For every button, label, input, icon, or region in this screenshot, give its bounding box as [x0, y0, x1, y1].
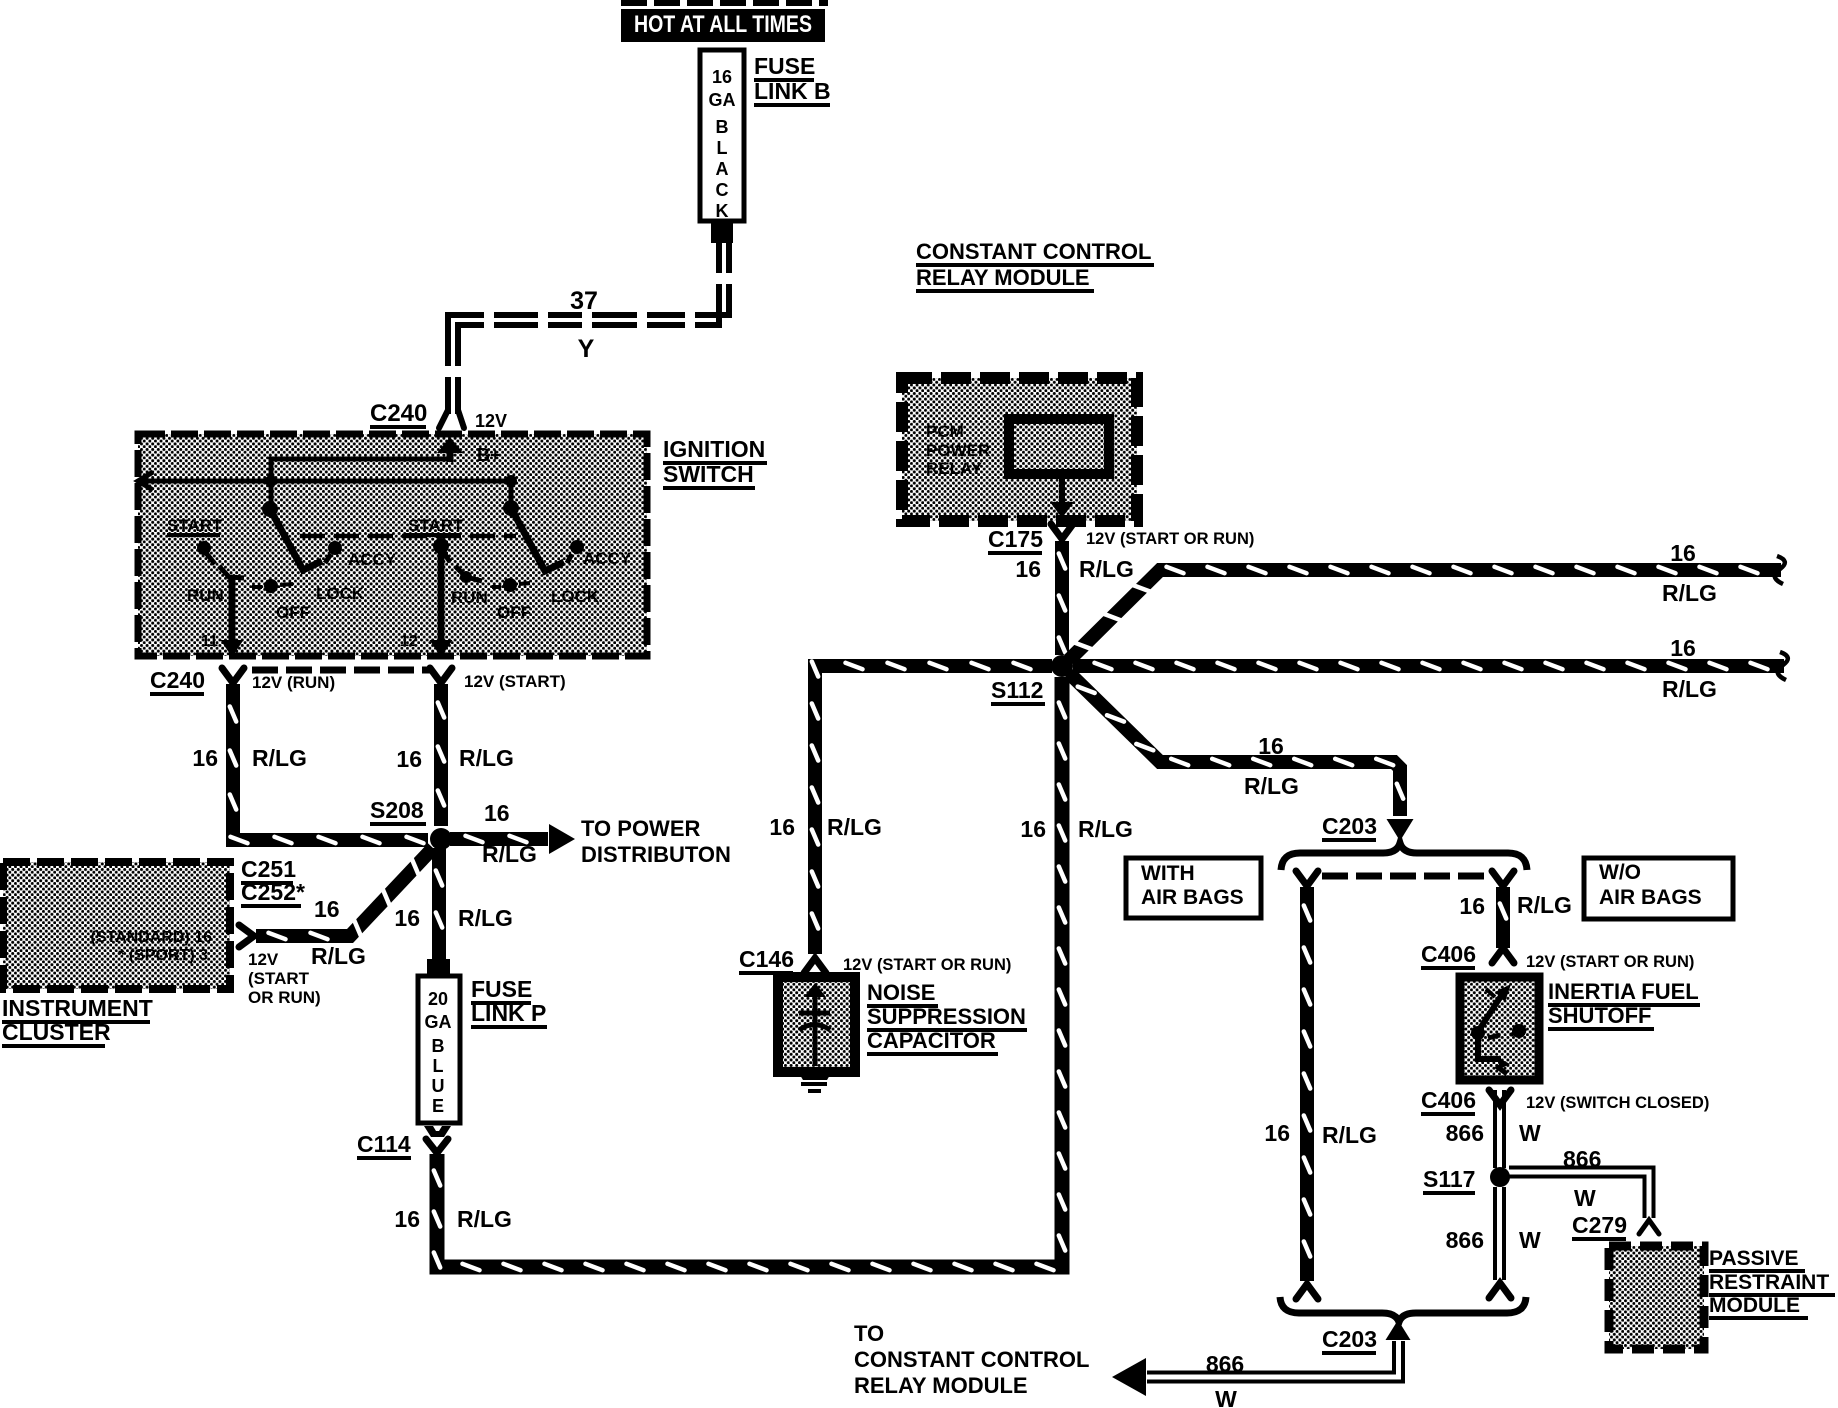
C175 wire labels 16 R/LG: [1015, 556, 1134, 582]
svg-text:START: START: [167, 516, 223, 535]
C203 bottom fork (right): [1489, 1283, 1511, 1298]
svg-text:FUSE: FUSE: [754, 53, 815, 79]
svg-text:LOCK: LOCK: [551, 587, 600, 606]
wire 37 Y (fuse link B to C240, double-line): [442, 243, 734, 414]
noise suppression capacitor connector C146 fork: [804, 958, 826, 973]
instrument cluster box: [3, 862, 230, 989]
wire 16 R/LG (w/o air bags) to C406: [1500, 887, 1506, 948]
OFF contact (switch 1): [252, 579, 310, 622]
pin 12 arrow to C240: [430, 538, 453, 657]
B+ entry arrow: [437, 437, 463, 462]
svg-text:MODULE: MODULE: [1709, 1294, 1800, 1317]
866 W labels (C279 branch): [1563, 1146, 1601, 1211]
capacitor branch labels 16 R/LG: [769, 814, 882, 840]
svg-text:C: C: [716, 180, 729, 200]
HOT AT ALL TIMES label box: [621, 9, 825, 42]
wire 866 W from S117 down to C203 (double line): [1495, 1187, 1504, 1280]
svg-text:LOCK: LOCK: [316, 584, 365, 603]
wire 866 W return to constant control relay module (double line, arrows): [1112, 1320, 1411, 1396]
svg-text:R/LG: R/LG: [1079, 556, 1134, 582]
fuse link P (20 GA BLUE): [418, 976, 460, 1123]
connector C406 bottom fork: [1489, 1090, 1511, 1105]
svg-text:B+: B+: [477, 445, 501, 465]
svg-text:OR RUN): OR RUN): [248, 988, 321, 1007]
svg-text:C203: C203: [1322, 813, 1377, 839]
constant control relay module heading: [916, 239, 1154, 293]
svg-text:R/LG: R/LG: [1244, 773, 1299, 799]
wire 16 R/LG (with air bags) down to C203 bottom: [1304, 887, 1310, 1281]
C203 bottom fork (left): [1296, 1284, 1318, 1299]
START contact (switch 1): [167, 516, 223, 564]
C203 connector forks and dashed line: [1296, 871, 1514, 886]
svg-text:WITH: WITH: [1141, 862, 1195, 885]
12V (START OR RUN) label: [248, 950, 321, 1007]
svg-text:16: 16: [769, 814, 795, 840]
C114 wire labels 16 R/LG: [394, 1206, 512, 1232]
connector C114 terminal bulb: [424, 1126, 451, 1137]
C203 brace (bottom): [1280, 1297, 1526, 1322]
inertia fuel shutoff label: [1548, 979, 1700, 1031]
ignition switch box: [138, 434, 647, 656]
svg-text:HOT AT ALL TIMES: HOT AT ALL TIMES: [634, 11, 812, 38]
866 W labels (lower): [1446, 1227, 1541, 1253]
instrument cluster label: [2, 995, 153, 1048]
svg-text:S208: S208: [370, 797, 424, 823]
svg-text:16: 16: [1670, 635, 1696, 661]
svg-text:L: L: [433, 1056, 444, 1076]
svg-text:W: W: [1519, 1227, 1541, 1253]
svg-text:U: U: [432, 1076, 445, 1096]
splice S208: [430, 828, 452, 850]
svg-text:16: 16: [1020, 816, 1046, 842]
svg-text:LINK B: LINK B: [754, 78, 831, 104]
connector C240 top fork: [439, 410, 464, 428]
left wire labels 16 R/LG: [192, 745, 307, 771]
svg-text:PASSIVE: PASSIVE: [1709, 1247, 1798, 1270]
svg-text:R/LG: R/LG: [458, 905, 513, 931]
svg-text:* (SPORT) 3: * (SPORT) 3: [118, 947, 208, 964]
w/o-air-bags wire labels 16 R/LG: [1459, 892, 1572, 919]
svg-text:POWER: POWER: [926, 441, 990, 460]
svg-text:B: B: [716, 117, 729, 137]
svg-text:R/LG: R/LG: [252, 745, 307, 771]
svg-text:RESTRAINT: RESTRAINT: [1709, 1271, 1829, 1294]
connector C114 fork: [426, 1139, 448, 1153]
svg-text:12V (START): 12V (START): [464, 672, 566, 691]
fuse link P label: [471, 976, 547, 1029]
svg-text:K: K: [716, 201, 729, 221]
svg-text:C240: C240: [370, 400, 427, 427]
START contact (switch 2): [405, 516, 464, 537]
svg-text:A: A: [716, 159, 729, 179]
ignition switch label: [663, 436, 767, 490]
svg-text:(STANDARD) 16: (STANDARD) 16: [91, 929, 213, 946]
svg-text:R/LG: R/LG: [1517, 892, 1572, 918]
passive restraint module box: [1609, 1246, 1704, 1349]
C203 branch labels 16 R/LG: [1244, 733, 1299, 799]
svg-text:866: 866: [1206, 1351, 1244, 1377]
svg-text:C406: C406: [1421, 1087, 1476, 1113]
svg-text:C114: C114: [357, 1131, 411, 1157]
splice S112: [1051, 655, 1073, 677]
switch 1 pivot: [262, 481, 278, 517]
svg-text:PCM: PCM: [926, 422, 964, 441]
connector C279 fork: [1639, 1220, 1659, 1234]
wire 16 R/LG from C114 along bottom to S112: [434, 677, 1065, 1270]
wire 16 R/LG from pin 12 to S208: [438, 684, 444, 826]
ACCY contact (switch 2): [567, 540, 632, 568]
svg-text:CLUSTER: CLUSTER: [2, 1019, 111, 1045]
svg-text:16: 16: [1258, 733, 1284, 759]
svg-text:START: START: [408, 516, 464, 535]
switch 2 feed node: [505, 475, 517, 487]
svg-text:RELAY MODULE: RELAY MODULE: [854, 1373, 1028, 1398]
svg-text:12V (START OR RUN): 12V (START OR RUN): [1526, 953, 1694, 971]
svg-text:CONSTANT CONTROL: CONSTANT CONTROL: [916, 239, 1151, 264]
fuse link B (16 GA BLACK): [700, 50, 744, 221]
svg-text:866: 866: [1446, 1227, 1484, 1253]
svg-text:866: 866: [1446, 1120, 1484, 1146]
svg-text:16: 16: [712, 67, 732, 87]
svg-text:RUN: RUN: [451, 588, 488, 607]
passive restraint module label: [1709, 1247, 1835, 1320]
wire 866 W from C406 to S117 (double line): [1495, 1090, 1504, 1168]
svg-text:C406: C406: [1421, 941, 1476, 967]
hot-at-all-times bus dashed top edge: [621, 0, 828, 6]
feed bus left arrowhead: [138, 472, 153, 490]
fuse P wire labels 16 R/LG: [394, 905, 513, 931]
noise suppression capacitor label: [867, 980, 1027, 1056]
wire 16 R/LG from S208 to instrument cluster C251: [256, 848, 433, 939]
svg-text:TO POWER: TO POWER: [581, 816, 700, 841]
wire 16 R/LG from S208 to fuse link P: [436, 848, 442, 961]
svg-text:E: E: [432, 1096, 444, 1116]
svg-text:C146: C146: [739, 946, 794, 972]
svg-text:R/LG: R/LG: [1322, 1122, 1377, 1148]
svg-text:12V (SWITCH CLOSED): 12V (SWITCH CLOSED): [1526, 1094, 1709, 1112]
wire 16 R/LG from S112 upper right (to right edge): [1069, 556, 1785, 660]
fuse link B label: [754, 53, 831, 107]
svg-text:12V: 12V: [248, 950, 279, 969]
svg-text:R/LG: R/LG: [1662, 676, 1717, 702]
wire 16 R/LG to power distribution (arrow right): [450, 824, 575, 854]
switch 1 wiper: [270, 509, 322, 570]
svg-text:R/LG: R/LG: [459, 745, 514, 771]
RUN contact (switch 1): [187, 566, 244, 605]
svg-text:R/LG: R/LG: [482, 841, 537, 867]
svg-text:RELAY MODULE: RELAY MODULE: [916, 265, 1090, 290]
svg-text:16: 16: [314, 896, 340, 922]
S112 column labels 16 R/LG: [1020, 816, 1133, 842]
connector C251/C252 fork: [239, 925, 254, 947]
switch 2 wiper: [511, 508, 564, 571]
svg-text:NOISE: NOISE: [867, 980, 935, 1005]
svg-text:866: 866: [1563, 1146, 1601, 1172]
svg-text:C240: C240: [150, 667, 205, 693]
svg-text:R/LG: R/LG: [1078, 816, 1133, 842]
svg-text:FUSE: FUSE: [471, 976, 532, 1002]
svg-text:GA: GA: [425, 1012, 452, 1032]
svg-text:C175: C175: [988, 526, 1043, 552]
fuse link P top terminal plug: [427, 959, 450, 978]
svg-text:S112: S112: [991, 677, 1043, 703]
svg-text:ACCY: ACCY: [583, 549, 632, 568]
TO CONSTANT CONTROL RELAY MODULE label: [854, 1321, 1089, 1398]
wire 16 R/LG from S112 straight right (to right edge): [1073, 652, 1788, 680]
capacitor ground: [797, 1070, 833, 1093]
relay contact box: [1009, 419, 1109, 474]
svg-text:16: 16: [1459, 893, 1485, 919]
svg-text:12V: 12V: [475, 411, 507, 431]
svg-text:C252*: C252*: [241, 879, 305, 905]
svg-text:16: 16: [394, 1206, 420, 1232]
W/O AIR BAGS box: [1584, 858, 1733, 919]
PCM power relay label: [926, 422, 990, 478]
svg-text:16: 16: [396, 746, 422, 772]
TO POWER DISTRIBUTON label: [581, 816, 731, 867]
right wire labels 16 R/LG: [396, 745, 514, 772]
ignition feed bus line: [141, 479, 511, 484]
svg-text:S117: S117: [1423, 1166, 1475, 1192]
svg-text:B: B: [432, 1036, 445, 1056]
pin 11 arrow to C240: [221, 577, 244, 657]
svg-text:16: 16: [1264, 1120, 1290, 1146]
svg-text:TO: TO: [854, 1321, 884, 1346]
svg-text:C203: C203: [1322, 1326, 1377, 1352]
fuse link B bottom terminal plug: [711, 221, 733, 243]
svg-text:LINK P: LINK P: [471, 1000, 546, 1026]
svg-text:12V (START OR RUN): 12V (START OR RUN): [1086, 530, 1254, 548]
svg-text:W/O: W/O: [1599, 861, 1641, 884]
B+ feed line: [271, 459, 452, 481]
wire 866 W from S117 to C279 (double line): [1509, 1168, 1654, 1219]
svg-text:16: 16: [1015, 556, 1041, 582]
svg-text:16: 16: [394, 905, 420, 931]
svg-text:IGNITION: IGNITION: [663, 436, 765, 462]
svg-text:W: W: [1519, 1120, 1541, 1146]
svg-text:16: 16: [192, 745, 218, 771]
svg-text:GA: GA: [709, 90, 736, 110]
wire 16 R/LG from C175 to S112: [1059, 541, 1065, 655]
OFF contact (switch 2): [492, 578, 531, 622]
with-air-bags wire labels 16 R/LG: [1264, 1120, 1377, 1148]
ACCY contact (switch 1): [325, 541, 397, 569]
svg-text:AIR BAGS: AIR BAGS: [1141, 886, 1244, 909]
inertia fuel shutoff switch: [1460, 977, 1539, 1080]
svg-text:SHUTOFF: SHUTOFF: [1548, 1003, 1651, 1028]
connector C406 top fork: [1492, 948, 1514, 963]
svg-text:W: W: [1574, 1185, 1596, 1211]
svg-text:SWITCH: SWITCH: [663, 461, 754, 487]
switch 2 pivot: [503, 481, 519, 516]
svg-text:AIR BAGS: AIR BAGS: [1599, 886, 1702, 909]
WITH AIR BAGS box: [1126, 858, 1261, 918]
connector C175 fork: [1051, 524, 1073, 539]
svg-text:OFF: OFF: [276, 603, 310, 622]
svg-text:37: 37: [570, 287, 598, 315]
svg-text:Y: Y: [578, 335, 595, 363]
start position dashed link line: [300, 534, 516, 539]
svg-text:C279: C279: [1572, 1212, 1627, 1238]
svg-text:CAPACITOR: CAPACITOR: [867, 1028, 996, 1053]
wire 16 R/LG from S112 left down to noise capacitor: [812, 662, 1052, 955]
svg-text:RELAY: RELAY: [926, 459, 983, 478]
866 W labels (upper): [1446, 1120, 1541, 1146]
svg-text:R/LG: R/LG: [311, 943, 366, 969]
svg-text:(START: (START: [248, 969, 310, 988]
svg-text:SUPPRESSION: SUPPRESSION: [867, 1004, 1026, 1029]
straight right wire labels 16 R/LG: [1662, 635, 1717, 702]
svg-text:12V (START OR RUN): 12V (START OR RUN): [843, 956, 1011, 974]
svg-text:CONSTANT CONTROL: CONSTANT CONTROL: [854, 1347, 1089, 1372]
svg-text:20: 20: [428, 989, 448, 1009]
svg-text:W: W: [1215, 1386, 1237, 1408]
arrow wire labels 16 R/LG: [482, 800, 537, 867]
noise suppression capacitor C1: [778, 977, 855, 1072]
svg-text:16: 16: [1670, 540, 1696, 566]
svg-text:11: 11: [201, 633, 218, 650]
svg-text:12V (RUN): 12V (RUN): [252, 673, 335, 692]
instrument cluster pin labels: [91, 929, 213, 964]
svg-text:L: L: [717, 138, 728, 158]
splice S117: [1490, 1167, 1510, 1187]
wire 16 R/LG from S112 to C203: [1069, 673, 1414, 841]
866 W labels (bottom): [1206, 1351, 1244, 1408]
svg-text:ACCY: ACCY: [348, 550, 397, 569]
svg-text:16: 16: [484, 800, 510, 826]
relay output arrow: [1050, 474, 1074, 518]
upper right wire labels 16 R/LG: [1662, 540, 1717, 606]
svg-text:DISTRIBUTON: DISTRIBUTON: [581, 842, 731, 867]
svg-text:R/LG: R/LG: [1662, 580, 1717, 606]
C203 brace (top): [1281, 843, 1527, 870]
svg-text:INERTIA FUEL: INERTIA FUEL: [1548, 979, 1699, 1004]
connector C240 bottom row: [222, 668, 452, 683]
PCM power relay module box: [902, 378, 1137, 521]
svg-text:OFF: OFF: [497, 603, 531, 622]
svg-text:12: 12: [400, 633, 418, 650]
svg-text:R/LG: R/LG: [457, 1206, 512, 1232]
svg-text:INSTRUMENT: INSTRUMENT: [2, 995, 153, 1021]
svg-text:R/LG: R/LG: [827, 814, 882, 840]
svg-text:RUN: RUN: [187, 586, 224, 605]
switch 1 feed node: [265, 475, 277, 487]
wire 16 R/LG from pin 11 to S208: [230, 684, 428, 843]
RUN contact (switch 2): [451, 566, 488, 607]
